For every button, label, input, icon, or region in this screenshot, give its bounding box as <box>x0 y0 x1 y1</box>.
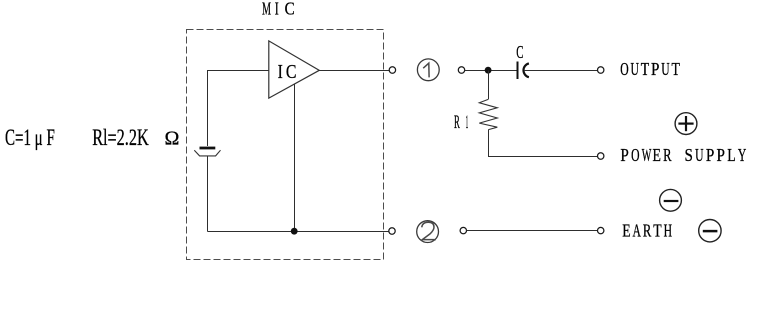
svg-text:P: P <box>620 145 628 165</box>
svg-text:C: C <box>285 0 295 19</box>
svg-text:M: M <box>262 0 271 19</box>
svg-text:U: U <box>695 145 703 165</box>
dashed enclosure MIC module <box>187 30 384 260</box>
svg-text:T: T <box>641 59 649 79</box>
resistor R1 zigzag <box>479 99 497 129</box>
svg-text:T: T <box>671 59 679 79</box>
svg-text:L: L <box>727 145 735 165</box>
svg-text:E: E <box>622 220 630 240</box>
svg-text:I: I <box>278 61 283 83</box>
svg-text:O: O <box>631 145 639 165</box>
node 1 circled number <box>417 59 439 81</box>
wire R1 to POWER SUPPLY terminal <box>489 130 598 157</box>
terminal POWER SUPPLY circle <box>598 153 604 159</box>
svg-text:C: C <box>286 61 297 83</box>
svg-text:R: R <box>663 145 671 165</box>
svg-text:1: 1 <box>466 112 469 133</box>
electret capsule MIC element <box>194 148 220 156</box>
svg-text:A: A <box>633 220 641 240</box>
wire earth row <box>467 230 598 232</box>
wire input (capsule to amplifier) <box>208 71 269 147</box>
wire IC ground leg <box>294 84 296 231</box>
svg-text:R: R <box>643 220 651 240</box>
svg-text:C: C <box>516 42 523 62</box>
wire capacitor to OUTPUT terminal <box>524 70 598 72</box>
op-amp IC triangle <box>269 41 320 98</box>
capacitor C <box>518 61 529 79</box>
svg-text:P: P <box>651 59 659 79</box>
svg-text:W: W <box>642 145 652 165</box>
wire bottom rail to pin 2 <box>208 231 389 233</box>
svg-text:C=1 μ F: C=1 μ F <box>5 125 55 150</box>
svg-text:R: R <box>454 112 460 133</box>
svg-text:P: P <box>717 145 725 165</box>
node 2 circled number <box>417 221 439 243</box>
terminal pin 2 circle <box>389 228 395 234</box>
svg-text:I: I <box>275 0 279 19</box>
wire capsule to bottom rail <box>207 156 209 232</box>
wire node1 terminal to capacitor <box>465 70 517 72</box>
svg-text:T: T <box>653 220 661 240</box>
svg-text:H: H <box>664 220 672 240</box>
svg-text:U: U <box>630 59 638 79</box>
svg-text:Ω: Ω <box>165 128 180 150</box>
terminal pin 1 circle <box>389 67 395 73</box>
polarity symbol minus (upper) <box>660 189 682 211</box>
polarity symbol minus (lower) <box>699 220 721 242</box>
wire IC output to pin 1 <box>319 70 389 72</box>
svg-text:U: U <box>661 59 669 79</box>
svg-text:O: O <box>620 59 628 79</box>
terminal circle node 1 row left <box>458 67 464 73</box>
terminal OUTPUT circle <box>598 67 604 73</box>
svg-text:S: S <box>684 145 692 165</box>
svg-text:E: E <box>652 145 660 165</box>
junction dot on bottom rail <box>291 228 298 235</box>
svg-text:Rl=2.2K: Rl=2.2K <box>92 125 149 150</box>
terminal EARTH right circle <box>598 227 604 233</box>
svg-text:Y: Y <box>738 145 746 165</box>
wire junction to resistor R1 <box>488 71 490 100</box>
terminal EARTH row left circle <box>460 227 466 233</box>
svg-text:P: P <box>706 145 714 165</box>
polarity symbol plus (power) <box>675 113 697 135</box>
junction dot node A <box>485 67 492 74</box>
